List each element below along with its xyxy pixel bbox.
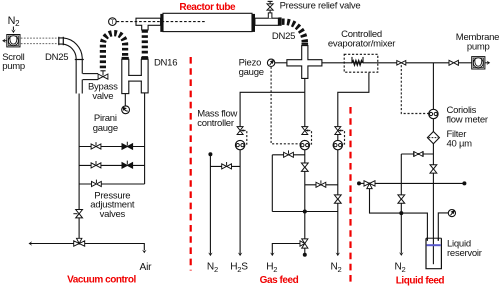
svg-text:Gas feed: Gas feed [260,275,299,286]
Pirani gauge [122,106,130,114]
bellows loop (bypass U) [103,33,125,68]
reactor tube body [163,13,252,31]
reservoir tubes redraw over level [426,238,428,241]
relief valve stub [268,13,272,18]
wire N2 liquid inlet [400,213,402,253]
svg-text:DN16: DN16 [154,58,177,69]
flange box at bend inlet [58,37,60,45]
svg-text:evaporator/mixer: evaporator/mixer [328,39,395,50]
wire MFC2 drop [304,92,306,126]
Piezo gauge circle [267,59,274,66]
liquid level (blue) [427,244,441,246]
T-pipe at reactor inlet [136,18,161,25]
valve rung3 open [92,180,102,187]
wire ladder rung 3 [79,183,145,185]
junction node [303,210,307,214]
bellows DN25 right (bend down) [282,22,305,43]
valve rung2 open [91,161,101,168]
P gauge circle [448,210,455,217]
valve vertical hourglass below ladder [73,213,77,215]
centerline dashed through reactor [117,21,206,23]
wire to membrane pump [458,62,471,64]
wire junction down to coriolis [432,63,434,110]
valve rung2 filled [122,161,133,169]
wire cross bottom stem [304,78,306,92]
flange bar H left tube top [122,57,129,59]
MFC1 flow sensor [235,140,244,149]
valve hourglass above reservoir junction [430,165,437,173]
membrane pump [472,57,485,69]
wire vent dot left of 3-way [360,182,364,184]
bellows DN16 (reactor to H right tube) [142,30,148,57]
check valve to filter line [401,153,433,155]
svg-text:pump: pump [467,41,490,52]
H junction crossbar [128,76,143,81]
pressure relief valve [269,10,271,13]
valve purge branch [222,162,232,169]
signal dashed valve to coriolis [401,65,428,113]
heater element in evaporator [352,61,362,65]
three-way valve H2 select [300,239,308,248]
filter 40um diamond [427,132,439,144]
wire N2-2 line [338,73,369,255]
evaporator dashed box [344,54,378,72]
wire P gauge tube [438,213,448,241]
MFC2 flow sensor [300,140,309,149]
wire valve to pump valve [406,62,449,64]
wire suction tube into reservoir [432,183,434,264]
svg-text:DN25: DN25 [45,52,68,63]
flange bar H right tube top [141,57,148,59]
H junction piece left tube [122,59,129,93]
valve rung1 filled [122,142,133,150]
svg-text:Liquid feed: Liquid feed [396,275,445,286]
valve hourglass on center line [301,163,308,171]
svg-text:valve: valve [92,91,113,102]
svg-text:controller: controller [197,118,234,129]
svg-text:gauge: gauge [93,123,118,134]
three-way valve bottom [74,238,85,246]
MFC3 control valve [335,127,341,135]
svg-text:gauge: gauge [239,67,264,78]
pipe DN25 bend (elbow down) [59,41,80,94]
valve hourglass on branch [398,195,405,203]
liquid reservoir vessel [426,238,441,269]
svg-text:valves: valves [100,209,126,220]
wire exhaust left [30,243,74,245]
reactor right flange [252,14,255,32]
svg-text:reservoir: reservoir [447,248,482,259]
wire N2 to scroll pump [12,27,14,31]
pump outlet wire [485,62,488,64]
wire evaporator to valve [363,62,397,64]
separator vacuum/gas (red dashed) [190,57,192,271]
wire 3-way down and N2 header [370,189,428,241]
wire branch to H2 vertical [272,154,305,156]
svg-text:pump: pump [2,61,25,72]
wire header to MFC1 [240,92,305,126]
svg-text:Pressure relief valve: Pressure relief valve [280,1,361,12]
bypass branch stub pipe [82,74,99,80]
separator gas/liquid (red dashed) [349,107,351,282]
wire branch right to N2-2 [305,184,338,186]
wire check valve branch down [400,154,402,195]
reactor outlet pipe [255,18,279,25]
wire ladder left rail [78,94,80,240]
wire coriolis to filter [432,119,434,132]
reactor left flange [160,14,163,32]
MFC1 control valve [237,127,243,135]
wire piezo to cross [275,62,287,64]
signal dashed piezo to MFC2 [271,67,300,144]
cross junction [287,46,322,79]
svg-text:Air: Air [140,262,153,273]
svg-text:Reactor tube: Reactor tube [179,2,236,13]
liquid header horizontal [364,182,464,184]
three-way valve liquid [364,181,375,189]
control valve after evaporator [397,61,406,66]
wire cross to evaporator [322,62,352,64]
wire filter down [432,144,434,184]
svg-text:DN25: DN25 [272,31,295,42]
wire ladder right rail [144,147,146,185]
wire purge branch N2 to H2S [210,165,240,167]
wire H left tube to Pirani gauge [124,94,126,106]
wire H2S line down [239,150,241,254]
MFC2 control valve [302,127,308,135]
MFC3 flow sensor [333,140,342,149]
wire cross-connect horizontal [272,211,338,213]
wire H2 inlet [272,244,300,255]
wire to air inlet [85,244,145,251]
scroll pump [7,35,20,47]
flange bar at cross top [302,43,309,45]
scroll pump exhaust wire [4,40,8,42]
bypass valve [98,74,108,79]
wire H2 vertical drop [271,155,273,212]
wire N2-1 line [208,152,212,156]
H junction piece right tube [141,59,148,93]
wire H right tube down to ladder [144,93,146,147]
Coriolis flow meter [429,109,438,118]
flexible hose (double dashed) scroll pump to DN25 bend [21,37,59,39]
valve on H2 branch [284,150,294,157]
flange bar reactor outlet [278,17,281,25]
thermocouple circle T [109,18,117,26]
wire branch to bottom header [400,203,402,213]
wire vent below 3-way [304,248,306,253]
valve before membrane pump [449,60,458,65]
wire ladder rung 1 [79,146,145,148]
valve on right branch [316,180,326,187]
valve hourglass on N2-2 line [334,195,341,203]
svg-text:flow meter: flow meter [447,114,488,125]
T-pipe stub down [142,25,148,30]
wire ladder rung 2 [79,164,145,166]
svg-text:40 µm: 40 µm [447,139,473,150]
valve rung1 open [91,142,101,149]
svg-text:Vacuum control: Vacuum control [67,275,136,286]
svg-text:T: T [111,19,115,26]
flange tick on vertical pipe [75,59,84,61]
wire MFC2 down to 3-way valve [304,150,306,239]
junction node N2 [399,211,403,215]
